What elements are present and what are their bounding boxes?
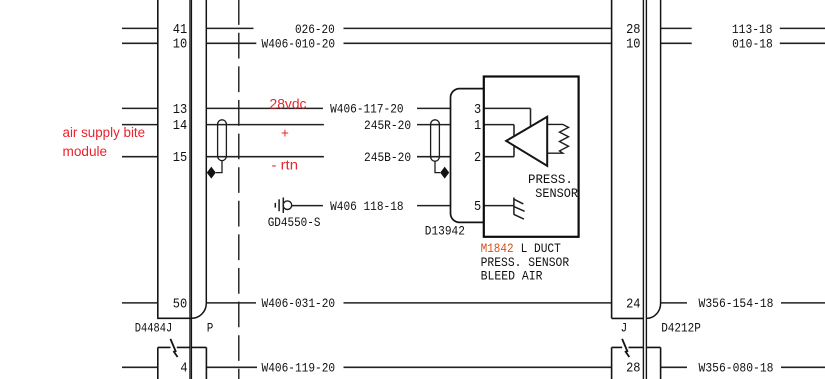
svg-text:28: 28 [626, 362, 640, 377]
svg-text:4: 4 [180, 362, 187, 377]
svg-text:10: 10 [626, 38, 640, 53]
svg-text:SENSOR: SENSOR [535, 186, 578, 201]
svg-text:41: 41 [173, 23, 187, 38]
svg-text:- rtn: - rtn [272, 158, 299, 173]
svg-text:24: 24 [626, 297, 640, 312]
svg-text:10: 10 [173, 38, 187, 53]
svg-text:W406-010-20: W406-010-20 [262, 37, 336, 52]
svg-text:W406-117-20: W406-117-20 [330, 102, 404, 117]
svg-text:D4212P: D4212P [661, 322, 701, 336]
svg-text:W406 118-18: W406 118-18 [330, 199, 404, 214]
svg-text:P: P [207, 322, 214, 336]
svg-text:28vdc: 28vdc [270, 97, 307, 112]
svg-text:air supply bite: air supply bite [63, 125, 146, 140]
svg-text:15: 15 [173, 151, 187, 166]
svg-text:1: 1 [474, 119, 481, 134]
svg-text:50: 50 [173, 297, 187, 312]
svg-text:026-20: 026-20 [295, 22, 335, 37]
svg-text:5: 5 [474, 200, 481, 215]
svg-text:J: J [621, 322, 628, 336]
svg-text:D13942: D13942 [425, 225, 465, 239]
svg-text:PRESS. SENSOR: PRESS. SENSOR [481, 255, 570, 270]
svg-text:3: 3 [474, 103, 481, 118]
svg-text:14: 14 [173, 119, 187, 134]
svg-text:13: 13 [173, 103, 187, 118]
svg-text:W356-080-18: W356-080-18 [699, 361, 774, 376]
svg-text:2: 2 [474, 151, 481, 166]
svg-text:BLEED AIR: BLEED AIR [481, 269, 543, 284]
svg-text:GD4550-S: GD4550-S [268, 216, 321, 230]
svg-text:010-18: 010-18 [732, 37, 773, 52]
svg-text:M1842: M1842 [481, 241, 514, 256]
svg-text:+: + [281, 125, 289, 140]
svg-text:W356-154-18: W356-154-18 [699, 296, 774, 311]
svg-text:W406-119-20: W406-119-20 [262, 361, 336, 376]
svg-text:245B-20: 245B-20 [364, 150, 411, 165]
svg-text:28: 28 [626, 23, 640, 38]
svg-text:W406-031-20: W406-031-20 [262, 296, 336, 311]
svg-text:245R-20: 245R-20 [364, 118, 411, 133]
svg-text:L DUCT: L DUCT [521, 241, 561, 256]
svg-text:D4484J: D4484J [135, 322, 172, 336]
svg-text:module: module [63, 144, 108, 159]
svg-text:113-18: 113-18 [732, 22, 773, 37]
